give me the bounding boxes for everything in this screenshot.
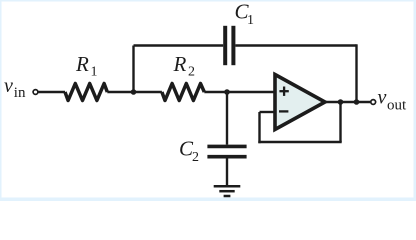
ground [214,186,241,196]
frame border bottom [0,198,416,202]
capacitor C2 [207,146,246,156]
wire node B down to C2 [226,92,228,145]
svg-text:v: v [4,75,13,97]
output rail junction [354,99,360,105]
op-amp U1 [275,75,325,130]
svg-text:2: 2 [192,150,199,165]
label C1 [235,0,255,28]
svg-text:in: in [14,85,26,101]
frame border left [0,0,2,201]
input terminal [33,90,38,95]
capacitor C1 [225,26,233,65]
label vout [378,86,408,113]
svg-text:1: 1 [91,64,98,79]
node A junction [131,89,137,95]
wire top rail right of C1 [235,44,356,46]
wire feedback down from output [339,102,341,142]
frame border right [414,0,416,201]
svg-text:2: 2 [188,64,195,79]
feedback junction [338,99,344,105]
label vin [4,75,26,101]
wire op-amp output to vout [324,101,371,103]
wire node A up to top rail [132,46,134,93]
label C2 [179,137,199,166]
wire feedback bottom [258,141,341,143]
resistor R1 [65,84,107,101]
wire top rail left of C1 [134,44,224,46]
frame border top [0,0,416,2]
wire feedback up left [258,112,260,143]
svg-text:1: 1 [247,13,254,28]
wire R2 to op-amp + input [204,91,275,93]
wire top rail down to output [355,44,357,102]
wire feedback to op-amp - input [260,111,276,113]
label R2 [173,52,196,79]
svg-text:out: out [387,97,407,113]
wire C2 to ground [226,159,228,187]
svg-text:R: R [173,52,187,76]
label R1 [75,52,98,79]
svg-text:v: v [378,86,387,108]
wire input to R1 [38,91,65,93]
wire R1 to R2 [107,91,162,93]
output terminal [371,100,376,105]
svg-text:R: R [75,52,89,76]
resistor R2 [162,84,204,101]
node B junction [224,89,230,95]
